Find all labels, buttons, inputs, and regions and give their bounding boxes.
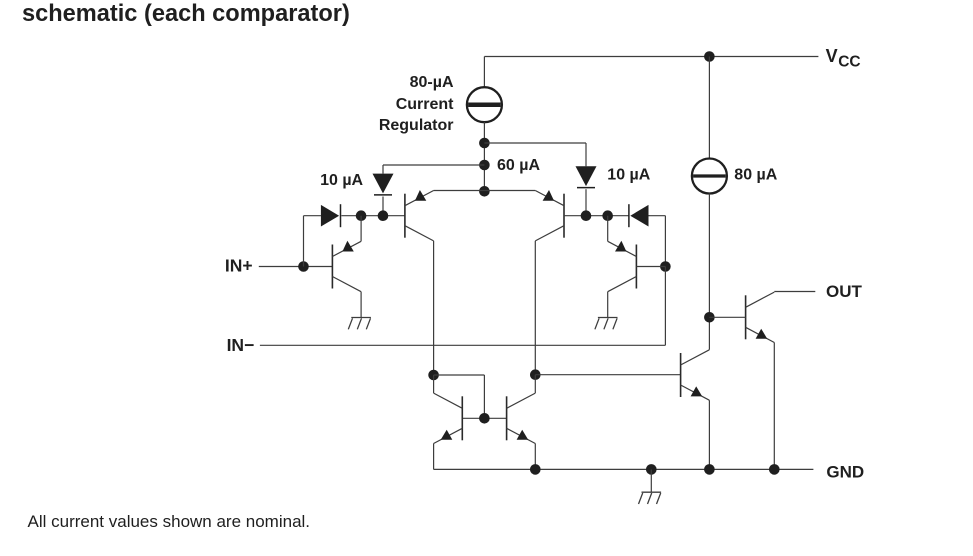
node Q6 emitter GND [530, 464, 541, 475]
node Q7 emitter GND [704, 464, 715, 475]
node emitter rail center [479, 186, 490, 197]
node mirror left [428, 370, 439, 381]
svg-text:GND: GND [826, 462, 864, 481]
transistor Q5 mirror left [434, 393, 464, 443]
node center top [479, 138, 490, 149]
diode D4 clamp right [629, 204, 649, 227]
node D3 cathode junction [356, 210, 367, 221]
wire emitter rail [434, 190, 536, 192]
current source I1 80-uA current regulator [467, 87, 502, 122]
transistor Q8 output [745, 292, 775, 342]
wire left base rail [341, 215, 405, 217]
diode D1 10uA left [373, 174, 394, 195]
wire Q1 emitter riser [360, 216, 362, 242]
wire Q7 emitter drop [708, 400, 710, 469]
wire Q2 collector drop [433, 241, 435, 375]
svg-text:10 µA: 10 µA [320, 172, 363, 189]
wire Q6 collector drop [534, 375, 536, 393]
wire clamp riser left [304, 216, 321, 267]
node IN- junction [660, 261, 671, 272]
svg-text:OUT: OUT [826, 282, 863, 301]
node D2 junction [581, 210, 592, 221]
svg-text:Current: Current [396, 96, 454, 113]
wire Vcc to source [708, 57, 710, 159]
transistor Q1 input follower IN+ [332, 241, 362, 292]
wire Q6 emitter drop [534, 444, 536, 470]
label Vcc [826, 46, 861, 70]
wire Q4 collector drop [607, 292, 609, 318]
wire to left diode [383, 165, 484, 174]
wire Q1 collector drop [360, 292, 362, 318]
svg-text:Regulator: Regulator [379, 117, 454, 134]
svg-text:80-µA: 80-µA [410, 74, 454, 91]
wire center vertical [483, 122, 485, 191]
label 80-uA Current Regulator [379, 74, 454, 134]
wire GND rail [434, 468, 814, 470]
wire Q5 emitter drop [433, 444, 435, 470]
node Q8 base junction [704, 312, 715, 323]
diode D3 clamp left [321, 204, 341, 227]
wire Q7 base [535, 374, 680, 376]
svg-text:60 µA: 60 µA [497, 157, 540, 174]
diode D2 10uA right [576, 166, 597, 187]
node 60uA tap [479, 160, 490, 171]
wire Q4 emitter riser [607, 216, 609, 242]
wire D2 cathode [585, 189, 587, 216]
wire OUT lead [774, 291, 815, 293]
wire Q8 base [709, 316, 745, 318]
wire Q4 base [636, 266, 665, 268]
transistor Q3 diff pair right [535, 190, 565, 241]
wire IN- lead [260, 267, 666, 346]
wire to right diode [484, 143, 586, 166]
svg-text:IN−: IN− [227, 335, 255, 355]
ground GND rail [639, 469, 662, 504]
svg-text:80 µA: 80 µA [734, 167, 777, 184]
transistor Q7 driver [680, 350, 710, 400]
wire D1 cathode [382, 197, 384, 216]
svg-text:V: V [826, 46, 838, 66]
node Q4 emitter junction [602, 210, 613, 221]
node GND symbol tap [646, 464, 657, 475]
wire source to Q7 [708, 194, 710, 350]
wire regulator top [483, 57, 485, 88]
ground Q4 collector [595, 318, 618, 330]
node mirror base [479, 413, 490, 424]
wire mirror tie [434, 375, 485, 418]
wire Q3 collector drop [534, 241, 536, 375]
wire Vcc rail [484, 56, 818, 58]
wire IN+ lead [259, 266, 333, 268]
wire Q8 emitter drop [773, 343, 775, 470]
wire right base rail [564, 215, 629, 217]
svg-text:10 µA: 10 µA [607, 166, 650, 183]
node IN+ junction [298, 261, 309, 272]
transistor Q6 mirror right [506, 393, 536, 443]
transistor Q4 input follower IN- [608, 241, 637, 292]
wire mirror base rail [462, 417, 506, 419]
wire clamp riser right [649, 216, 666, 267]
current source I2 80uA [692, 159, 727, 194]
transistor Q2 diff pair left [404, 190, 434, 241]
node D1 junction [378, 210, 389, 221]
node Q8 emitter GND [769, 464, 780, 475]
node mirror right [530, 369, 541, 380]
svg-text:CC: CC [838, 53, 860, 70]
node Vcc junction [704, 51, 715, 62]
ground Q1 collector [348, 318, 371, 330]
wire Q5 collector drop [433, 375, 435, 393]
svg-text:IN+: IN+ [225, 256, 253, 276]
